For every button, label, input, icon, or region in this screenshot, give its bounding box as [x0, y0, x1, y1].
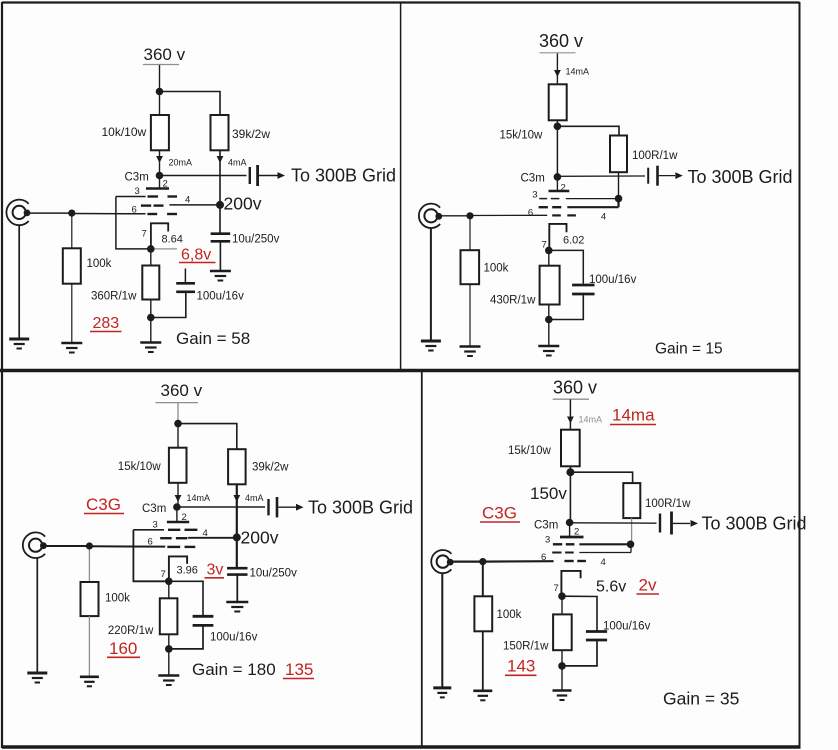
svg-text:C3G: C3G [482, 504, 517, 523]
node 15k bottom Q2 [554, 123, 562, 131]
wire B+ down Q1 [159, 65, 161, 92]
wire input node to 100k Q3 [88, 546, 90, 582]
capacitor 100u/16v stem Q1 [184, 269, 186, 283]
svg-text:150v: 150v [530, 484, 567, 503]
wire cathode to 430R Q2 [548, 250, 550, 265]
node B+ junction Q3 [174, 420, 182, 428]
ground 220R Q3 [158, 676, 179, 686]
pin 2 wire Q4 [569, 523, 571, 537]
svg-text:100k: 100k [484, 263, 509, 275]
wire to 15k Q3 [177, 424, 179, 448]
svg-text:143: 143 [507, 657, 535, 676]
wire grid3 left leg Q1 [116, 197, 151, 249]
wire to 100R Q2 [557, 126, 619, 135]
wire cap to arrow Q4 [673, 522, 690, 524]
resistor 100R/1w Q4 [623, 483, 640, 518]
resistor 100R/1w Q2 [610, 136, 627, 173]
tube cathode Q4 [561, 571, 580, 596]
svg-text:100u/16v: 100u/16v [589, 274, 637, 286]
wire to ground Q4 [561, 666, 563, 690]
ground 150R Q4 [553, 691, 572, 701]
tube grid2 dashes Q3 [160, 537, 187, 539]
node cathode Q4 [558, 592, 566, 600]
wire to 100R Q4 [570, 472, 632, 483]
wire 200v to 10u Q1 [219, 205, 221, 233]
svg-text:15k/10w: 15k/10w [118, 461, 162, 473]
svg-text:14mA: 14mA [187, 493, 211, 503]
capacitor 100u/16v plates Q3 [193, 616, 214, 625]
tube anode bar Q3 [167, 521, 189, 524]
connector input jack Q2 [419, 204, 442, 228]
node input Q1 [68, 210, 75, 217]
node cathode Q3 [165, 578, 173, 586]
tube grid2 dashes Q4 [552, 552, 574, 554]
node 200v junction Q1 [216, 201, 224, 209]
svg-text:C3G: C3G [86, 495, 121, 514]
connector input jack Q3 [23, 532, 47, 558]
wire 100k to ground Q1 [71, 284, 73, 342]
wire cathode to 360R Q1 [150, 249, 152, 266]
wire screen drop Q2 [617, 199, 619, 208]
svg-text:100u/16v: 100u/16v [603, 621, 651, 633]
tube cathode Q1 [151, 223, 168, 249]
wire 10u to ground Q1 [219, 241, 221, 270]
arrow 14mA Q3 [175, 495, 182, 502]
svg-text:2v: 2v [639, 576, 657, 595]
svg-text:100k: 100k [87, 258, 112, 270]
wire B+ underline Q2 [540, 52, 576, 54]
svg-text:14mA: 14mA [566, 67, 590, 77]
resistor 100k Q4 [474, 596, 492, 631]
svg-text:4: 4 [601, 557, 606, 568]
svg-text:200v: 200v [241, 528, 279, 548]
node screen junction Q2 [615, 195, 623, 203]
svg-text:39k/2w: 39k/2w [252, 462, 289, 474]
node 360R bottom Q1 [147, 314, 155, 322]
node screen junction Q4 [627, 541, 635, 549]
wire input Q1 [26, 212, 71, 214]
ground 100k Q3 [80, 677, 99, 687]
svg-text:5.6v: 5.6v [596, 579, 626, 596]
svg-text:4: 4 [601, 212, 606, 223]
wire cathode to 100u Q4 [562, 596, 597, 630]
svg-text:4: 4 [203, 528, 208, 539]
svg-text:100u/16v: 100u/16v [197, 291, 245, 303]
wire 360R to gnd node Q1 [150, 300, 152, 318]
arrow to 300B grid Q4 [691, 520, 699, 527]
node 15k bottom Q4 [566, 468, 574, 476]
tube cathode Q2 [549, 224, 566, 251]
tube grid1 dashes Q2 [552, 214, 576, 216]
wire jack sleeve Q1 [18, 225, 20, 338]
node 220R bottom Q3 [165, 645, 173, 653]
node 200v junction Q3 [233, 533, 241, 541]
node input Q4 [479, 558, 486, 565]
svg-text:14ma: 14ma [612, 406, 655, 425]
wire 220R to gnd node Q3 [168, 634, 170, 649]
wire jack sleeve Q2 [430, 228, 432, 340]
svg-text:To 300B Grid: To 300B Grid [688, 167, 793, 187]
wire grid3 left leg Q3 [133, 530, 168, 582]
arrow 20mA Q1 [156, 156, 163, 163]
wire grid2 solid Q4 [579, 552, 631, 554]
ground 10u Q3 [226, 602, 248, 612]
arrow to 300B grid Q2 [675, 172, 683, 179]
pin 2 wire Q1 [159, 176, 161, 189]
wire input to grid Q1 [72, 213, 146, 215]
svg-text:6,8v: 6,8v [181, 247, 211, 264]
svg-text:3v: 3v [207, 562, 224, 579]
wire to 39k Q1 [160, 92, 221, 116]
resistor 100k Q2 [461, 250, 480, 284]
wire jack sleeve Q3 [36, 558, 38, 672]
tube grid2 dashes Q2 [539, 206, 562, 208]
svg-text:C3m: C3m [142, 503, 166, 515]
svg-text:4mA: 4mA [228, 158, 247, 168]
wire input to grid Q2 [470, 214, 547, 216]
wire grid2 solid Q2 [567, 206, 618, 208]
svg-text:360R/1w: 360R/1w [91, 291, 137, 303]
ground 360R Q1 [140, 343, 161, 353]
svg-text:Gain = 15: Gain = 15 [655, 341, 723, 358]
wire input node to 100k Q4 [482, 562, 484, 597]
ground 100k Q4 [473, 691, 492, 701]
wire grid3 solid Q3 [133, 529, 164, 531]
tube grid3 dashes Q4 [553, 543, 575, 545]
wire cathode to 100u Q3 [169, 581, 203, 615]
tube grid3 dashes Q2 [539, 198, 559, 200]
wire plate to coupling cap Q2 [557, 175, 645, 177]
svg-text:430R/1w: 430R/1w [490, 295, 536, 307]
ground 100k Q1 [61, 343, 82, 353]
svg-text:4: 4 [185, 195, 190, 206]
tube grid3 dashes Q3 [168, 529, 197, 531]
svg-text:20mA: 20mA [169, 158, 193, 168]
resistor 15k/10w Q3 [169, 448, 187, 483]
wire to ground Q1 [150, 318, 152, 342]
svg-text:360 v: 360 v [539, 31, 583, 51]
wire 100k to ground Q4 [482, 631, 484, 690]
svg-text:14mA: 14mA [579, 415, 603, 425]
wire jack sleeve Q4 [441, 573, 443, 687]
wire 100R to screen node Q4 [631, 518, 633, 544]
svg-text:C3m: C3m [125, 172, 149, 184]
node 150R bottom Q4 [558, 662, 566, 670]
svg-text:8.64: 8.64 [162, 234, 183, 246]
wire pin4 to 200v Q3 [188, 537, 237, 539]
resistor 430R/1w Q2 [540, 266, 560, 305]
node plate pin2 Q2 [554, 173, 562, 181]
svg-text:200v: 200v [224, 194, 262, 214]
wire 100R to screen node Q2 [618, 172, 620, 198]
wire 100u to node Q2 [549, 294, 584, 320]
capacitor 100u/16v plates Q1 [176, 283, 195, 292]
svg-text:Gain = 35: Gain = 35 [663, 689, 739, 709]
ground input jack Q2 [421, 341, 441, 351]
node plate pin2 Q3 [173, 503, 181, 511]
arrow to 300B grid Q3 [296, 504, 304, 511]
ground 10u Q1 [210, 271, 231, 281]
wire 200v to 10u Q3 [236, 537, 238, 567]
svg-text:10u/250v: 10u/250v [232, 234, 280, 246]
capacitor 100u/16v plates Q4 [586, 632, 607, 641]
svg-text:3: 3 [532, 190, 537, 201]
node B+ junction Q1 [156, 88, 164, 96]
svg-text:To 300B Grid: To 300B Grid [291, 166, 396, 186]
wire input Q4 [451, 560, 483, 562]
resistor 10k/10w Q1 [151, 115, 169, 150]
svg-text:220R/1w: 220R/1w [108, 625, 154, 637]
svg-text:7: 7 [142, 229, 147, 240]
svg-text:3.96: 3.96 [177, 565, 198, 577]
node cathode Q1 [147, 245, 155, 253]
svg-text:10u/250v: 10u/250v [250, 568, 298, 580]
arrow to 300B grid Q1 [278, 172, 286, 179]
wire cap to arrow Q1 [259, 175, 278, 177]
wire to ground Q3 [168, 649, 170, 675]
ground input jack Q3 [27, 673, 47, 683]
svg-text:150R/1w: 150R/1w [503, 641, 549, 653]
capacitor 10u/250v Q1 [211, 234, 231, 242]
wire input Q3 [44, 545, 90, 547]
tube grid2 dashes Q1 [141, 204, 164, 206]
svg-text:To 300B Grid: To 300B Grid [308, 498, 413, 518]
wire 39k to 200v Q1 [219, 150, 221, 205]
resistor 39k/2w Q1 [211, 115, 229, 150]
wire 100k to ground Q2 [469, 284, 471, 345]
wire 10u to ground Q3 [236, 575, 238, 601]
wire 15k to plate Q4 [569, 466, 571, 522]
wire grid3 to 100R node Q4 [579, 543, 630, 545]
tube grid1 dashes Q3 [167, 546, 195, 548]
wire grid3 solid Q1 [116, 196, 146, 198]
wire 430R to gnd node Q2 [548, 305, 550, 320]
svg-text:3: 3 [153, 520, 158, 531]
resistor 100k Q3 [81, 582, 99, 616]
ground input jack Q1 [9, 339, 29, 349]
capacitor coupling to 300B Q2 [648, 166, 657, 186]
wire B+ down Q4 [569, 400, 571, 430]
resistor 150R/1w Q4 [553, 614, 572, 650]
resistor 39k/2w Q3 [228, 449, 246, 484]
wire input to grid Q3 [89, 545, 165, 547]
wire input to grid Q4 [483, 560, 554, 563]
wire 15k to plate Q2 [556, 120, 558, 177]
connector input jack Q4 [431, 550, 453, 573]
wire 10k to plate Q1 [159, 150, 161, 175]
resistor 15k/10w Q4 [561, 430, 580, 467]
wire 39k to 200v Q3 [236, 484, 238, 537]
svg-text:135: 135 [285, 660, 313, 679]
arrow 14mA Q2 [554, 70, 561, 77]
resistor 220R/1w Q3 [160, 598, 178, 634]
capacitor coupling to 300B Q3 [269, 497, 278, 517]
wire plate to coupling cap Q3 [177, 506, 265, 508]
connector input jack Q1 [6, 200, 30, 226]
svg-text:C3m: C3m [534, 520, 558, 532]
wire screen drop Q4 [630, 544, 632, 552]
svg-text:4mA: 4mA [245, 493, 264, 503]
node plate pin2 Q4 [566, 519, 574, 527]
capacitor 10u/250v Q3 [227, 568, 247, 574]
tube grid1 dashes Q1 [147, 213, 177, 215]
wire input Q2 [438, 215, 470, 217]
wire plate to coupling cap Q1 [160, 175, 247, 177]
wire B+ down Q3 [177, 403, 179, 424]
svg-text:Gain = 58: Gain = 58 [176, 329, 250, 348]
svg-text:6: 6 [528, 208, 533, 219]
capacitor coupling to 300B Q1 [250, 165, 258, 186]
svg-text:39k/2w: 39k/2w [232, 127, 270, 141]
ground 430R Q2 [538, 346, 559, 356]
svg-text:360 v: 360 v [144, 45, 186, 64]
resistor 15k/10w Q2 [549, 84, 567, 120]
wire 15k to plate Q3 [177, 483, 179, 507]
svg-text:100k: 100k [105, 593, 130, 605]
node plate pin2 Q1 [156, 172, 164, 180]
wire cathode stub grey Q1 [151, 248, 177, 250]
wire to 10k Q1 [159, 92, 161, 116]
svg-text:7: 7 [161, 569, 166, 580]
wire cathode to 220R Q3 [168, 581, 170, 598]
tube grid3 dashes Q1 [148, 195, 178, 197]
svg-text:160: 160 [109, 639, 137, 658]
capacitor coupling to 300B Q4 [660, 512, 672, 535]
svg-text:100u/16v: 100u/16v [210, 632, 258, 644]
pin 2 wire Q3 [176, 507, 178, 521]
wire cathode to 100u Q2 [549, 250, 584, 283]
wire cap to arrow Q3 [278, 506, 296, 508]
svg-text:C3m: C3m [521, 173, 545, 185]
wire 100k to ground Q3 [88, 616, 90, 676]
wire B+ underline Q3 [156, 402, 199, 404]
arrow 14mA Q4 [567, 417, 574, 424]
wire 100u to node Q4 [562, 640, 597, 666]
wire 100u to node Q3 [169, 625, 203, 649]
wire B+ underline Q4 [553, 398, 589, 400]
wire to ground Q2 [548, 320, 550, 346]
wire pin4 to 200v Q1 [169, 204, 219, 206]
arrow 4mA Q1 [217, 156, 224, 163]
ground 100k Q2 [460, 347, 481, 357]
node 430R bottom Q2 [545, 316, 553, 324]
wire grid3 to 100R node Q2 [566, 198, 619, 200]
svg-text:360 v: 360 v [553, 378, 597, 398]
svg-text:100R/1w: 100R/1w [632, 150, 678, 162]
wire 150R to gnd node Q4 [561, 650, 563, 666]
wire to 39k Q3 [178, 424, 237, 450]
wire B+ down Q2 [556, 54, 558, 85]
wire cathode to 150R Q4 [561, 596, 563, 614]
arrow 4mA Q3 [233, 495, 240, 502]
tube cathode Q3 [169, 556, 187, 581]
svg-text:283: 283 [93, 315, 120, 332]
tube anode bar Q4 [560, 536, 584, 539]
resistor 100k Q1 [63, 248, 81, 283]
resistor 360R/1w Q1 [142, 266, 159, 300]
svg-text:100k: 100k [497, 609, 522, 621]
ground input jack Q4 [433, 688, 451, 698]
wire B+ underline Q1 [143, 64, 179, 66]
node cathode Q2 [545, 247, 553, 255]
node input Q2 [466, 212, 473, 219]
wire 100u to node Q1 [151, 293, 186, 318]
wire plate to coupling cap Q4 [570, 522, 657, 524]
svg-text:7: 7 [554, 583, 559, 594]
svg-text:Gain = 180: Gain = 180 [192, 660, 276, 679]
capacitor 100u/16v plates Q2 [572, 285, 594, 294]
svg-text:15k/10w: 15k/10w [508, 445, 552, 457]
svg-text:To 300B Grid: To 300B Grid [702, 514, 807, 534]
wire input node to 100k Q2 [469, 216, 471, 250]
tube anode bar Q2 [549, 190, 570, 193]
svg-text:3: 3 [545, 535, 550, 546]
pin 2 wire Q2 [556, 177, 558, 191]
wire cap to arrow Q2 [659, 175, 675, 177]
node input Q3 [86, 542, 93, 549]
svg-text:3: 3 [135, 186, 140, 197]
svg-text:100R/1w: 100R/1w [645, 498, 691, 510]
svg-text:10k/10w: 10k/10w [102, 125, 147, 139]
svg-text:360 v: 360 v [161, 381, 203, 400]
tube anode bar Q1 [146, 187, 169, 190]
svg-text:15k/10w: 15k/10w [500, 130, 544, 142]
wire input node to 100k Q1 [71, 213, 73, 248]
tube grid1 dashes Q4 [564, 560, 586, 562]
svg-text:6.02: 6.02 [563, 235, 584, 247]
